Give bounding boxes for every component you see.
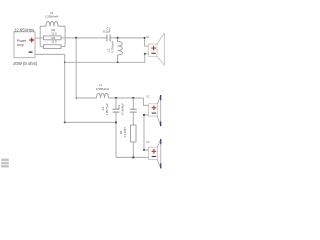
node C2 rail A junction [115, 121, 117, 123]
resistor R1 [131, 125, 137, 157]
node tweeter feed corner [144, 37, 146, 39]
node rail A corner [64, 121, 66, 123]
svg-text:11.5: 11.5 [51, 39, 57, 43]
capacitor C2 shunt [113, 98, 120, 157]
capacitor C3 [130, 98, 137, 125]
inductor L3 [40, 22, 65, 27]
svg-text:S3: S3 [146, 140, 150, 144]
resistor R2 [40, 36, 65, 40]
svg-text:0.796mH: 0.796mH [110, 41, 114, 53]
svg-text:20W (8 ohm): 20W (8 ohm) [13, 61, 38, 66]
node left bus [39, 26, 41, 46]
node R1 bottom junction [132, 156, 134, 158]
node woofer feed corner [75, 97, 77, 99]
capacitor C1 [107, 35, 110, 42]
svg-text:S1: S1 [146, 35, 150, 39]
node L2 bottom junction [117, 61, 119, 63]
wire S2 minus to S3 plus [144, 115, 149, 150]
svg-text:17.894µF: 17.894µF [121, 103, 125, 116]
wire amp+ to network [35, 37, 40, 39]
node S2 minus junction [143, 114, 145, 116]
node S3 plus corner [143, 149, 145, 151]
node J2 [117, 37, 119, 39]
node woofer C3 tap [132, 97, 134, 99]
node minus rail corner [64, 61, 66, 63]
wire woofer feed drop [76, 38, 96, 98]
svg-text:8.2µF: 8.2µF [103, 30, 111, 34]
amp plus terminal [29, 38, 34, 43]
speaker S3 (woofer 2) [149, 139, 161, 169]
svg-text:7.9577µF: 7.9577µF [105, 103, 109, 116]
svg-text:2.2564mH: 2.2564mH [45, 15, 58, 19]
capacitor C3 label [117, 103, 125, 116]
svg-text:Amp: Amp [17, 43, 24, 47]
wire S2 feed step-down [143, 98, 148, 105]
node S1 minus corner [144, 53, 146, 55]
wire rail B [116, 156, 149, 158]
power amp box U-AMP [14, 32, 35, 58]
resistor R1 label [119, 127, 127, 138]
wire main rail to C1 [65, 37, 107, 39]
wire woofer rail [109, 97, 144, 99]
inductor L1 [97, 93, 109, 98]
wire tweeter feed step-down [145, 38, 149, 46]
inductor L2 shunt [118, 38, 123, 62]
speaker S1 (tweeter) [148, 33, 164, 65]
wire amp minus rail [35, 54, 116, 122]
inductor L2 label [107, 41, 115, 53]
resistor R3 [40, 45, 65, 49]
capacitor C2 label [101, 103, 109, 116]
node J1 [75, 37, 77, 39]
svg-text:14.4687: 14.4687 [123, 127, 127, 138]
svg-text:S2: S2 [146, 95, 150, 99]
watermark marks bottom-left [1, 159, 9, 168]
speaker S2 (woofer) [149, 95, 161, 126]
amp minus terminal [29, 51, 33, 53]
node right bus [64, 26, 66, 46]
wire C1 to tweeter [110, 37, 145, 39]
svg-text:0.5564mH: 0.5564mH [96, 87, 109, 91]
wire S1 minus return [65, 54, 149, 63]
node woofer C2 tap [115, 97, 117, 99]
